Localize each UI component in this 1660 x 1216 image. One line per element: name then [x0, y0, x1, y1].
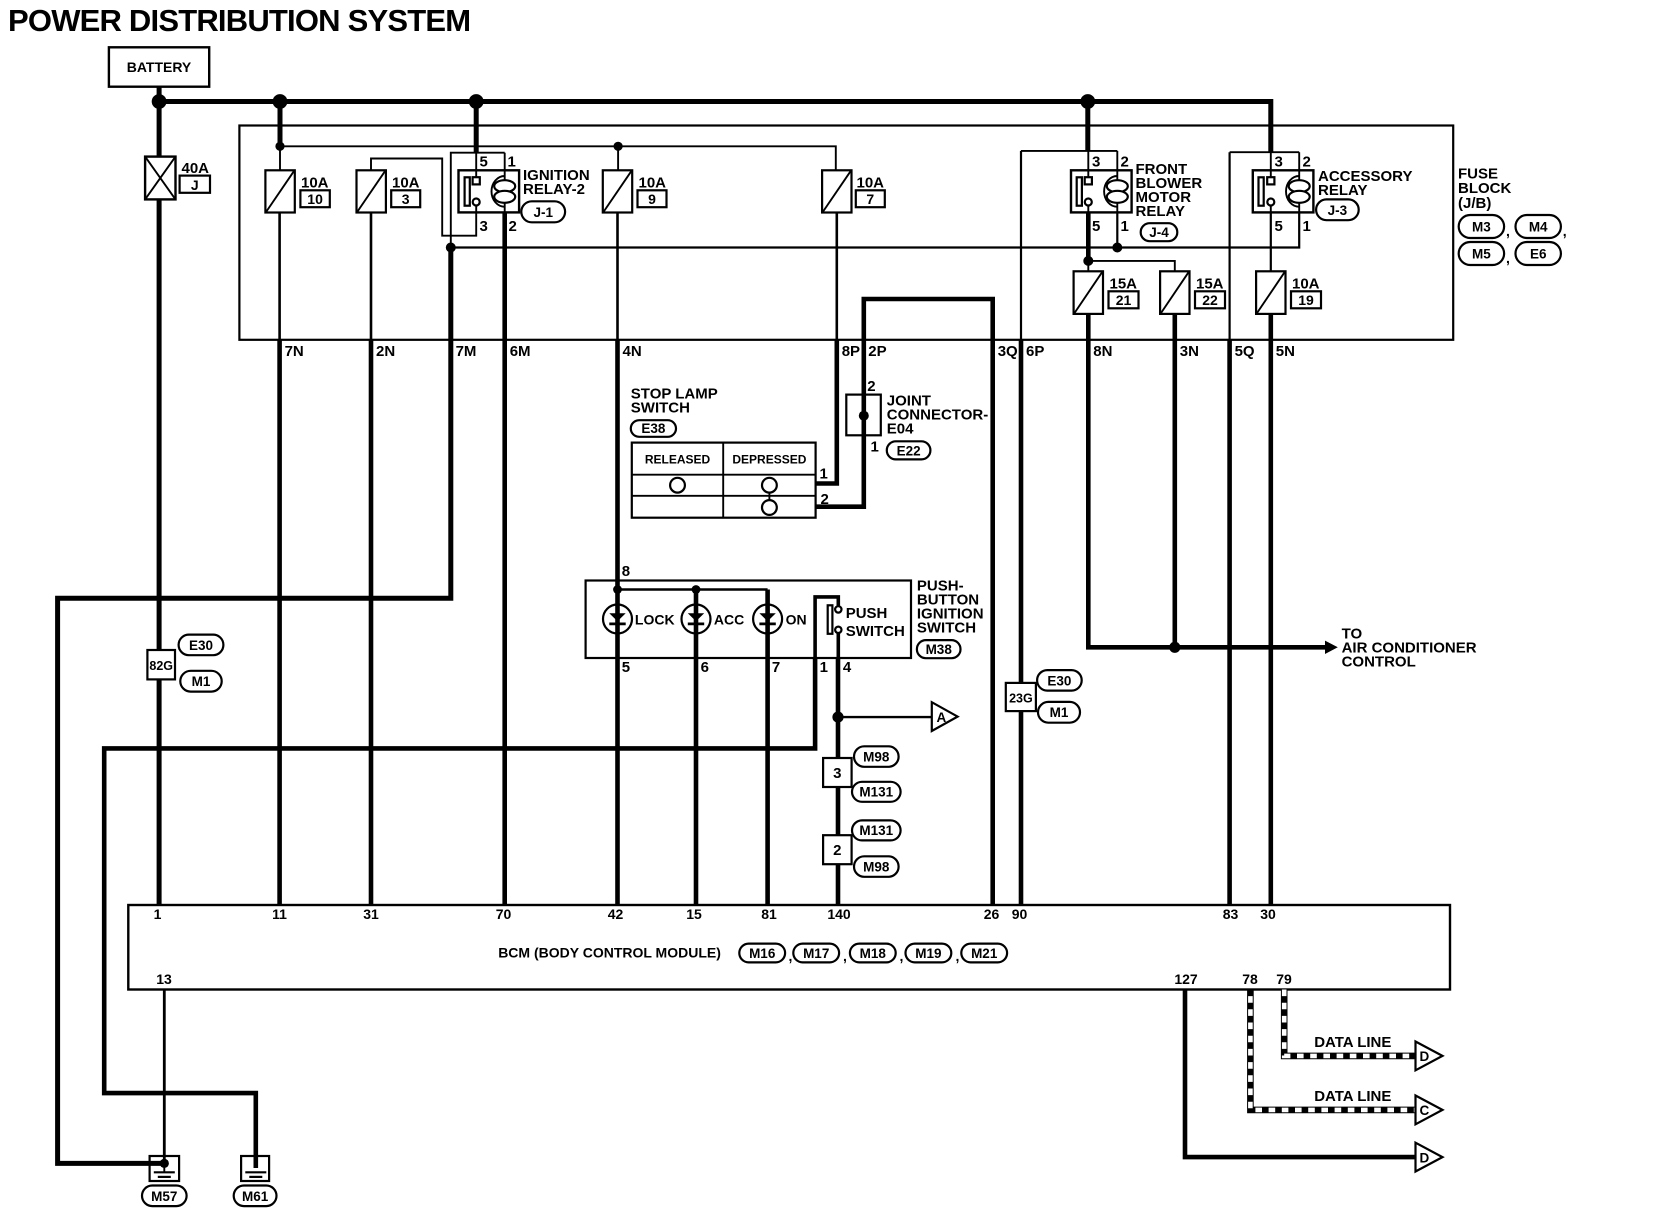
- wire 6P front blower coil to BCM pin 90: [1020, 151, 1022, 340]
- svg-text:8: 8: [622, 563, 630, 580]
- ground symbol M57: [163, 1163, 165, 1171]
- svg-text:3: 3: [480, 218, 488, 235]
- push switch bar: [828, 605, 833, 634]
- LED LOCK: [603, 605, 632, 634]
- svg-text:1: 1: [820, 466, 828, 483]
- svg-text:M57: M57: [151, 1189, 177, 1204]
- svg-text:5: 5: [480, 154, 488, 171]
- svg-text:E30: E30: [189, 638, 213, 653]
- junction node fuse 10 branch: [275, 142, 284, 151]
- wire 2P through joint connector E04 to stop lamp switch pin 2: [816, 340, 864, 507]
- svg-text:15A: 15A: [1110, 276, 1138, 293]
- svg-text:3N: 3N: [1180, 343, 1199, 360]
- svg-text:,: ,: [956, 948, 960, 964]
- ignition relay switch bar: [465, 177, 470, 205]
- connector J-3 oval: [1316, 199, 1359, 220]
- junction node ignition relay feed: [469, 94, 484, 109]
- fuse 10A 19: [1256, 271, 1285, 314]
- svg-text:DATA LINE: DATA LINE: [1314, 1034, 1391, 1051]
- connector M3 oval: [1459, 215, 1504, 238]
- connector 3 box on pin 140 wire: [823, 758, 852, 787]
- svg-text:,: ,: [900, 948, 904, 964]
- connector 82G box: [147, 650, 175, 679]
- connector C triangle: [1416, 1096, 1443, 1125]
- op accessory relay J-3 body: [1253, 170, 1314, 212]
- svg-text:D: D: [1420, 1150, 1430, 1165]
- svg-text:4: 4: [843, 659, 852, 676]
- svg-text:1: 1: [508, 154, 516, 171]
- front blower relay contacts: [1085, 177, 1092, 184]
- svg-text:2P: 2P: [868, 343, 886, 360]
- ignition relay coil: [492, 176, 505, 207]
- svg-text:5: 5: [1092, 218, 1100, 235]
- svg-text:3: 3: [1092, 154, 1100, 171]
- svg-text:M17: M17: [803, 946, 829, 961]
- wire push switch pin 1 bracket: [815, 597, 838, 658]
- wire fuse 3 input from ignition relay pin 3: [371, 159, 476, 236]
- svg-text:70: 70: [496, 906, 512, 922]
- op front blower motor relay J-4 body: [1071, 170, 1132, 212]
- fuse 15A 22: [1160, 271, 1189, 314]
- fuse 10A 9: [603, 170, 632, 212]
- svg-text:(J/B): (J/B): [1458, 195, 1491, 212]
- svg-text:83: 83: [1223, 906, 1239, 922]
- svg-text:RELAY: RELAY: [1136, 203, 1185, 220]
- connector M131 oval second: [852, 820, 901, 840]
- svg-text:M1: M1: [1050, 705, 1069, 720]
- wire 7M from node down-left to M57 ground: [58, 248, 451, 1164]
- svg-text:81: 81: [761, 906, 777, 922]
- svg-text:DATA LINE: DATA LINE: [1314, 1088, 1391, 1105]
- svg-text:1: 1: [820, 659, 828, 676]
- data line BCM pin 78 to connector C: [1250, 990, 1414, 1110]
- connector 2 box on pin 140 wire: [823, 835, 852, 864]
- connector M5 oval: [1459, 242, 1504, 265]
- svg-text:90: 90: [1012, 906, 1028, 922]
- wire ON LED to BCM pin 81: [765, 590, 770, 906]
- svg-text:RELAY: RELAY: [1318, 182, 1367, 199]
- svg-text:LOCK: LOCK: [635, 612, 675, 628]
- svg-text:42: 42: [608, 906, 624, 922]
- svg-text:31: 31: [363, 906, 379, 922]
- svg-text:8N: 8N: [1093, 343, 1112, 360]
- connector M98 oval second: [854, 856, 899, 877]
- svg-text:19: 19: [1298, 292, 1314, 308]
- connector E6 oval: [1516, 242, 1561, 265]
- svg-text:RELEASED: RELEASED: [645, 452, 711, 466]
- svg-text:,: ,: [1506, 223, 1510, 239]
- svg-text:127: 127: [1174, 971, 1198, 987]
- svg-text:M18: M18: [860, 946, 887, 961]
- svg-text:E6: E6: [1530, 247, 1547, 262]
- svg-text:15: 15: [686, 906, 702, 922]
- junction node fuse 21 22: [1083, 256, 1093, 266]
- svg-text:11: 11: [272, 906, 287, 922]
- battery box: [109, 47, 209, 86]
- connector M1 oval right: [1038, 702, 1080, 723]
- svg-text:22: 22: [1202, 292, 1218, 308]
- connector M98 oval: [854, 746, 899, 767]
- svg-text:5Q: 5Q: [1235, 343, 1255, 360]
- svg-text:7N: 7N: [285, 343, 304, 360]
- connector M131 oval: [852, 782, 901, 802]
- stop lamp switch contacts released: [670, 478, 685, 493]
- svg-text:J-3: J-3: [1328, 203, 1348, 218]
- svg-text:M16: M16: [749, 946, 776, 961]
- svg-text:,: ,: [1563, 223, 1567, 239]
- connector D triangle top: [1416, 1042, 1443, 1071]
- svg-text:,: ,: [789, 948, 793, 964]
- svg-text:M61: M61: [242, 1189, 269, 1204]
- data line BCM pin 79 to connector D: [1284, 990, 1414, 1056]
- svg-text:13: 13: [156, 971, 172, 987]
- wire 5Q accessory coil to BCM pin 83: [1228, 152, 1230, 340]
- connector M4 oval: [1516, 215, 1561, 238]
- svg-text:7: 7: [866, 191, 874, 207]
- svg-text:BCM (BODY CONTROL MODULE): BCM (BODY CONTROL MODULE): [498, 945, 721, 961]
- LED ACC: [682, 605, 711, 634]
- connector E30 oval right: [1037, 670, 1082, 691]
- svg-text:2N: 2N: [376, 343, 395, 360]
- wire 8P fuse 7 to stop lamp switch pin 1: [835, 213, 838, 340]
- svg-text:POWER DISTRIBUTION SYSTEM: POWER DISTRIBUTION SYSTEM: [8, 3, 470, 38]
- svg-text:J-4: J-4: [1149, 225, 1169, 240]
- LED ON: [753, 605, 782, 634]
- svg-text:1: 1: [871, 439, 879, 456]
- connector M1 oval left: [180, 671, 221, 692]
- svg-text:1: 1: [154, 906, 162, 922]
- accessory relay contacts: [1267, 177, 1274, 184]
- fuse 10A 7: [822, 170, 851, 212]
- connector E22 oval: [887, 441, 931, 459]
- svg-text:E30: E30: [1047, 673, 1071, 688]
- svg-text:10A: 10A: [392, 175, 420, 192]
- wire push switch lower contact to pin 4: [836, 633, 840, 658]
- fusible link 40A J: [145, 157, 175, 200]
- arrowhead to air conditioner control: [1325, 641, 1338, 654]
- svg-text:3: 3: [402, 191, 410, 207]
- wire bus drop to front blower relay pin 3: [1085, 102, 1090, 151]
- fuse block J/B outline: [239, 126, 1453, 340]
- svg-text:D: D: [1420, 1049, 1430, 1064]
- svg-text:4N: 4N: [623, 343, 642, 360]
- op ignition relay-2 J-1 body: [459, 170, 520, 212]
- svg-text:10A: 10A: [301, 175, 329, 192]
- svg-text:6P: 6P: [1026, 343, 1044, 360]
- fuse 15A 21: [1074, 271, 1103, 314]
- ground M61 box: [241, 1156, 269, 1181]
- connector J-4 oval: [1141, 223, 1178, 241]
- fuse 10A 3: [357, 170, 386, 212]
- accessory relay coil: [1286, 176, 1299, 207]
- svg-text:,: ,: [1506, 250, 1510, 266]
- junction node LED bus acc: [692, 585, 701, 594]
- junction node fuse 9 branch: [614, 142, 623, 151]
- svg-text:1: 1: [1121, 218, 1129, 235]
- svg-text:10A: 10A: [857, 175, 885, 192]
- svg-text:M21: M21: [971, 946, 998, 961]
- svg-text:J: J: [191, 177, 199, 193]
- wire 5N fuse 19 to BCM pin 30: [1269, 314, 1274, 905]
- svg-text:SWITCH: SWITCH: [846, 623, 905, 640]
- svg-text:M98: M98: [863, 749, 890, 764]
- junction node battery bus: [152, 94, 167, 109]
- wire fuse distribution line to fuses 10 9 7: [280, 146, 836, 170]
- svg-text:M98: M98: [863, 859, 890, 874]
- stop lamp switch contacts depressed: [762, 478, 777, 493]
- junction node A branch: [832, 712, 843, 723]
- wire branch to node A: [838, 716, 932, 718]
- wire bus drop to ignition relay-2 pin 5: [474, 102, 479, 153]
- wire main battery bus: [159, 99, 1271, 104]
- svg-text:30: 30: [1260, 906, 1276, 922]
- svg-text:M1: M1: [192, 674, 211, 689]
- wire accessory relay pin 5 to fuse 19: [1270, 212, 1272, 271]
- svg-text:15A: 15A: [1196, 276, 1224, 293]
- junction node LED bus lock: [613, 585, 622, 594]
- accessory relay switch bar: [1259, 177, 1264, 205]
- connector M38 oval: [917, 640, 961, 658]
- svg-text:8P: 8P: [842, 343, 860, 360]
- wire 3N fuse 22 joining 8N: [1173, 314, 1178, 647]
- svg-text:M131: M131: [859, 785, 893, 800]
- svg-text:E22: E22: [897, 443, 921, 458]
- svg-text:40A: 40A: [182, 160, 210, 177]
- wire 2P-3Q jumper inside fuse block: [864, 299, 993, 340]
- svg-text:BATTERY: BATTERY: [127, 59, 192, 75]
- wire bus drop to accessory relay pin 3: [1268, 99, 1273, 152]
- ground M57 box: [150, 1156, 180, 1181]
- connector 23G box: [1006, 683, 1036, 711]
- BCM box outline: [128, 905, 1450, 990]
- svg-text:5N: 5N: [1276, 343, 1295, 360]
- svg-text:E38: E38: [641, 421, 666, 436]
- svg-text:10A: 10A: [639, 175, 667, 192]
- wire 8N fuse 21 to air conditioner control: [1088, 314, 1325, 647]
- svg-text:SWITCH: SWITCH: [917, 620, 976, 637]
- wire 4N fuse 9 to ignition switch pin 8 through LOCK to BCM pin 42: [616, 213, 619, 340]
- svg-text:6: 6: [701, 659, 709, 676]
- joint connector E04 box: [846, 395, 881, 436]
- svg-text:2: 2: [867, 378, 875, 395]
- stop lamp switch table: [632, 443, 816, 518]
- wire bus drop to fuse bank: [278, 102, 283, 147]
- svg-text:DEPRESSED: DEPRESSED: [732, 452, 806, 466]
- svg-text:ON: ON: [786, 612, 807, 628]
- svg-text:21: 21: [1116, 292, 1132, 308]
- wire BCM pin 127 to connector D: [1185, 990, 1416, 1158]
- ignition relay contacts: [473, 177, 480, 184]
- ground symbol M61: [245, 1171, 266, 1173]
- svg-text:M3: M3: [1472, 220, 1491, 235]
- junction node relay common 7M: [446, 243, 456, 253]
- svg-text:M131: M131: [859, 823, 893, 838]
- svg-text:10: 10: [307, 191, 323, 207]
- svg-text:2: 2: [509, 218, 517, 235]
- wire relay coil common line to M57 ground: [451, 212, 1299, 247]
- wire 6M ignition relay pin 2 to BCM pin 70: [502, 212, 507, 905]
- svg-text:7M: 7M: [456, 343, 477, 360]
- wire LED bus inside ignition switch: [618, 588, 768, 590]
- svg-text:CONTROL: CONTROL: [1342, 654, 1416, 671]
- svg-text:E04: E04: [887, 421, 914, 438]
- svg-text:C: C: [1420, 1103, 1430, 1118]
- svg-text:M4: M4: [1529, 220, 1548, 235]
- svg-text:1: 1: [1303, 218, 1311, 235]
- junction node fuse bank feed: [273, 94, 288, 109]
- front blower relay switch bar: [1077, 177, 1082, 205]
- svg-text:82G: 82G: [149, 659, 173, 673]
- svg-text:,: ,: [843, 948, 847, 964]
- svg-text:2: 2: [1121, 154, 1129, 171]
- connector J-1 oval: [521, 201, 565, 222]
- wire pin 1 to M61 ground: [104, 658, 815, 1168]
- svg-text:PUSH: PUSH: [846, 605, 888, 622]
- connector E38 oval: [631, 420, 676, 437]
- svg-text:5: 5: [622, 659, 630, 676]
- svg-text:2: 2: [833, 842, 841, 859]
- svg-text:140: 140: [827, 906, 851, 922]
- svg-text:26: 26: [984, 906, 1000, 922]
- svg-text:M19: M19: [915, 946, 941, 961]
- svg-text:5: 5: [1275, 218, 1283, 235]
- svg-text:3Q: 3Q: [998, 343, 1018, 360]
- svg-text:78: 78: [1242, 971, 1258, 987]
- junction node blower coil common: [1112, 243, 1122, 253]
- svg-text:3: 3: [833, 765, 841, 782]
- wire 3Q to BCM pin 26: [990, 340, 995, 905]
- svg-text:M5: M5: [1472, 247, 1491, 262]
- junction node 3N 8N: [1169, 642, 1180, 653]
- svg-text:7: 7: [772, 659, 780, 676]
- wire ignition relay coil feed bracket from node at 247.5: [451, 153, 505, 248]
- svg-text:2: 2: [1303, 154, 1311, 171]
- wire pin 4 to BCM pin 140: [836, 658, 841, 905]
- node A triangle: [932, 702, 958, 731]
- front blower relay coil: [1104, 176, 1117, 207]
- wire 2N fuse 3 to BCM pin 31: [370, 213, 373, 340]
- wire BCM pin 13 to M57 ground: [163, 990, 166, 1164]
- wire ACC LED to BCM pin 15: [694, 590, 699, 906]
- wire front blower relay pin 1 to common line: [1116, 212, 1118, 247]
- svg-text:SWITCH: SWITCH: [631, 400, 690, 417]
- push-button ignition switch box outline: [586, 581, 911, 659]
- connector D triangle bottom: [1416, 1143, 1443, 1172]
- svg-text:M38: M38: [926, 642, 953, 657]
- svg-text:ACC: ACC: [714, 612, 744, 628]
- svg-text:3: 3: [1275, 154, 1283, 171]
- push switch contacts: [835, 606, 841, 612]
- svg-text:6M: 6M: [510, 343, 531, 360]
- wire 7N fuse 10 to BCM pin 11: [278, 213, 281, 340]
- svg-text:A: A: [937, 710, 947, 725]
- svg-text:10A: 10A: [1292, 276, 1320, 293]
- svg-text:RELAY-2: RELAY-2: [523, 181, 585, 198]
- junction node front blower feed: [1080, 94, 1095, 109]
- svg-text:79: 79: [1276, 971, 1292, 987]
- svg-text:9: 9: [648, 191, 656, 207]
- svg-text:23G: 23G: [1009, 691, 1033, 705]
- fuse 10A 10: [265, 170, 294, 212]
- svg-text:J-1: J-1: [533, 205, 553, 220]
- wire front blower pin 5 to fuses 21 22: [1086, 212, 1091, 261]
- svg-text:2: 2: [821, 491, 829, 508]
- wire battery feed vertical to BCM pin 1: [157, 87, 162, 905]
- connector E30 oval left: [179, 635, 224, 656]
